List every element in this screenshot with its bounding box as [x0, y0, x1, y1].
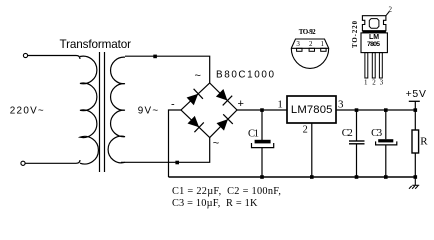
svg-text:7805: 7805: [367, 41, 380, 48]
svg-text:C2: C2: [342, 128, 353, 139]
svg-text:9V~: 9V~: [138, 105, 159, 116]
regulator U1 LM7805 box: [287, 96, 336, 123]
terminal 220V top: [23, 53, 27, 57]
TO-92 package drawing: [291, 39, 328, 68]
+5V terminal: [409, 101, 420, 110]
svg-text:~: ~: [213, 138, 219, 150]
diode D2: [216, 89, 232, 105]
svg-text:C1: C1: [248, 129, 259, 140]
terminal 220V bottom: [21, 161, 25, 165]
svg-text:C3 = 10µF, R = 1K: C3 = 10µF, R = 1K: [172, 198, 258, 209]
svg-text:+5V: +5V: [406, 89, 426, 100]
svg-text:C3: C3: [371, 128, 382, 139]
TO-220 package drawing: [361, 12, 389, 79]
ground: [409, 177, 419, 189]
transformer core: [100, 52, 105, 172]
svg-text:1: 1: [364, 78, 368, 86]
diode D4: [217, 114, 233, 130]
svg-text:TO-92: TO-92: [299, 28, 316, 36]
bridge rectifier B80C1000 diamond: [181, 83, 237, 138]
node C1 top: [260, 108, 264, 112]
wire bridge minus to ground rail: [169, 110, 182, 177]
svg-text:3: 3: [296, 40, 300, 48]
node C1 bottom: [260, 175, 264, 179]
svg-text:+: +: [238, 98, 244, 110]
winding secondary L2: [108, 57, 125, 163]
svg-text:3: 3: [338, 98, 344, 110]
svg-text:Transformator: Transformator: [60, 38, 132, 51]
winding primary L1: [80, 56, 98, 164]
capacitor C2: [349, 110, 365, 177]
wire regulator output: [336, 109, 415, 111]
wire secondary top to bridge: [125, 56, 210, 83]
svg-text:B80C1000: B80C1000: [216, 69, 275, 80]
node top wire: [153, 55, 157, 59]
wire secondary bottom to bridge: [121, 138, 210, 163]
svg-text:LM: LM: [369, 34, 379, 41]
svg-text:220V~: 220V~: [10, 105, 44, 116]
resistor R: [412, 110, 419, 177]
node C2 bottom: [355, 175, 359, 179]
node C3 top: [384, 108, 388, 112]
svg-text:1: 1: [321, 40, 325, 48]
wire pin2 to ground rail: [311, 123, 313, 177]
svg-text:2: 2: [389, 5, 393, 13]
svg-text:2: 2: [309, 40, 313, 48]
svg-text:~: ~: [195, 70, 201, 82]
svg-text:2: 2: [303, 125, 308, 136]
wire primary bottom: [25, 160, 80, 163]
diode D1: [187, 89, 203, 105]
node C3 bottom: [384, 175, 388, 179]
svg-text:1: 1: [277, 98, 283, 110]
svg-text:-: -: [171, 99, 175, 111]
node R bottom: [414, 175, 418, 179]
svg-text:TO-220: TO-220: [352, 20, 359, 48]
wire bridge plus to regulator: [237, 109, 287, 111]
node R top: [414, 108, 418, 112]
node pin2 bottom: [310, 175, 314, 179]
capacitor C1: [252, 110, 274, 177]
svg-text:C1 = 22µF, C2 = 100nF,: C1 = 22µF, C2 = 100nF,: [172, 186, 281, 197]
node C2 top: [355, 108, 359, 112]
svg-text:2: 2: [372, 78, 376, 86]
diode D3: [188, 116, 204, 132]
capacitor C3: [376, 110, 397, 177]
svg-text:3: 3: [380, 78, 384, 86]
svg-text:LM7805: LM7805: [291, 104, 333, 116]
svg-text:R: R: [420, 136, 428, 148]
ground rail: [169, 176, 416, 178]
node bottom wire: [175, 161, 179, 165]
wire primary top: [28, 56, 81, 60]
